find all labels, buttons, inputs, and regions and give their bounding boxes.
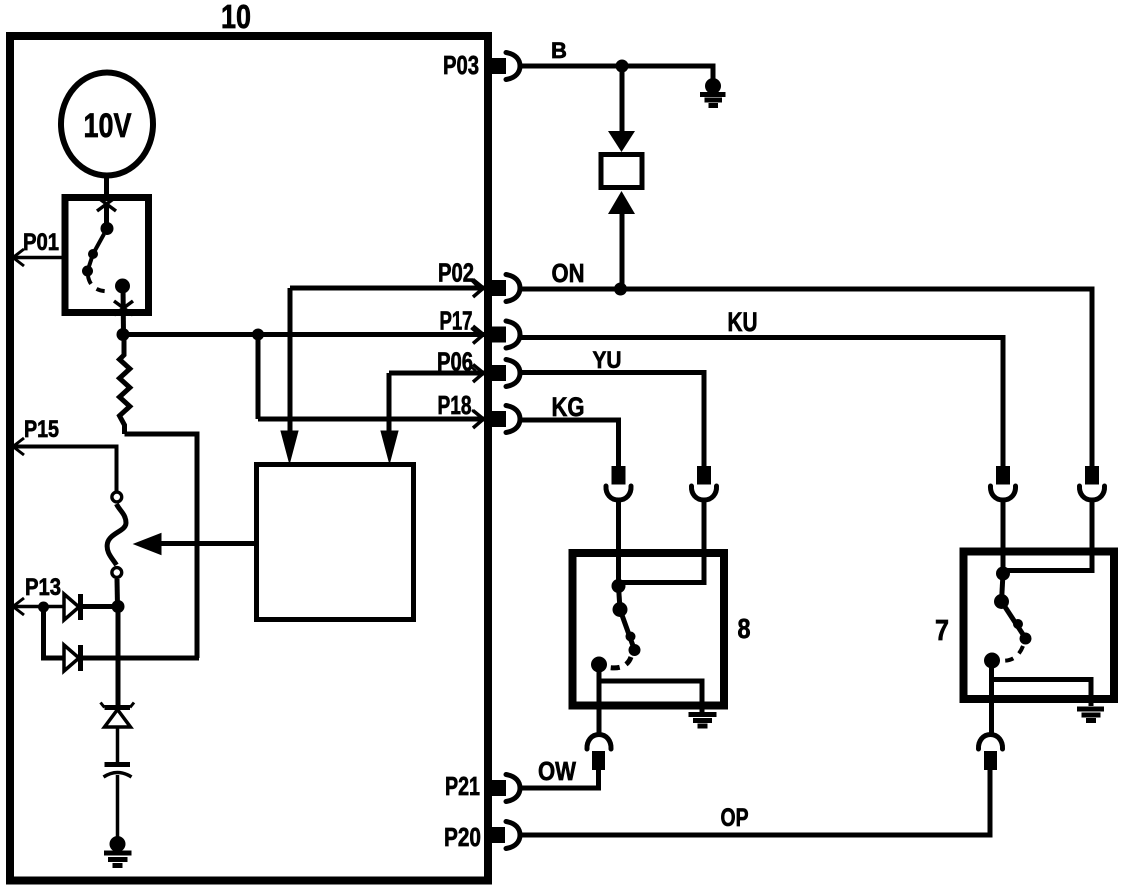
- wire B: [520, 66, 713, 79]
- pin P02 socket arc: [506, 275, 520, 302]
- wire KU: [520, 335, 1003, 466]
- svg-text:7: 7: [935, 615, 949, 647]
- ECU box 10: [10, 36, 488, 881]
- pin P06 socket arc: [506, 360, 520, 387]
- thermistor wavy element: [107, 504, 126, 565]
- switch box 8: [573, 553, 725, 706]
- svg-text:YU: YU: [593, 347, 622, 374]
- crimp X bottom: [114, 301, 133, 315]
- pin P13 lead wire: [13, 605, 64, 609]
- box 8 switch dashed arc: [606, 657, 631, 668]
- pin P03 square: [491, 58, 506, 74]
- svg-text:P13: P13: [25, 574, 61, 601]
- node P13 net: [112, 600, 125, 613]
- wire P18 net horizontal: [258, 417, 486, 422]
- wire D1 to node: [82, 604, 112, 609]
- voltage source 10V: [61, 73, 153, 176]
- pin P20 square: [490, 827, 505, 843]
- svg-text:ON: ON: [552, 258, 585, 288]
- pin P18 tick: [472, 410, 478, 415]
- box 7 switch contact dot: [984, 653, 1000, 669]
- switch box 7: [964, 552, 1115, 700]
- arrow up to fuse: [608, 191, 635, 214]
- arrow into control box left: [281, 431, 298, 463]
- pin P17 square: [491, 327, 506, 343]
- thermistor top terminal circle: [112, 492, 122, 502]
- wire circle to switch box: [104, 176, 109, 200]
- wire B down to fuse: [620, 66, 625, 140]
- pin P06 square: [491, 365, 506, 381]
- box 8 contact bracket: [599, 681, 702, 713]
- connector OP: square: [984, 751, 997, 770]
- pin P15 lead wire: [13, 447, 117, 492]
- pin P18 socket arc: [506, 406, 520, 433]
- connector OW: socket: [587, 735, 611, 750]
- svg-text:10: 10: [221, 0, 251, 35]
- resistor R1: [120, 335, 130, 435]
- box 8 switch pivot dot: [613, 602, 628, 617]
- connector OP: socket: [978, 735, 1002, 750]
- wire P06 net vertical: [387, 373, 392, 433]
- svg-text:KG: KG: [552, 392, 585, 422]
- svg-text:P02: P02: [438, 258, 474, 288]
- pin P02 square: [491, 280, 506, 296]
- pin P21 square: [491, 780, 506, 796]
- switch S1 arm: [82, 234, 104, 277]
- pin P01 lead wire: [13, 256, 65, 260]
- diode D1: [64, 594, 79, 620]
- svg-text:P18: P18: [438, 390, 472, 420]
- wire KG connector to box 8: [616, 500, 621, 586]
- wire control box to wiper arrow: [158, 541, 256, 546]
- switch S1 contact dot: [101, 222, 114, 235]
- fuse F1: [601, 155, 642, 188]
- ground symbol internal: [104, 853, 132, 866]
- wire node to P18 net: [256, 335, 261, 420]
- svg-text:P17: P17: [440, 306, 473, 336]
- box 7 switch arm: [1002, 602, 1026, 638]
- svg-text:8: 8: [738, 613, 751, 644]
- connector ON inline: square: [1085, 466, 1099, 485]
- pin P21 socket arc: [506, 775, 520, 802]
- svg-text:P20: P20: [444, 822, 481, 852]
- connector OW: square: [592, 751, 605, 770]
- wire D2 to loop corner: [82, 656, 199, 661]
- zener diode Z1: [101, 703, 135, 708]
- pin P20 socket arc: [506, 822, 520, 849]
- wire box 7 output down: [989, 661, 994, 736]
- wiper arrow head: [134, 534, 161, 555]
- box 7 wire between dots: [1002, 574, 1004, 602]
- connector YU inline: socket: [691, 486, 716, 500]
- wire P02 net vertical: [288, 288, 293, 433]
- wire ON: [520, 289, 1092, 466]
- pin P17 socket arc: [506, 321, 520, 348]
- switch S1 output dot: [115, 279, 130, 294]
- wire circle to node: [115, 579, 121, 607]
- svg-text:OP: OP: [721, 804, 749, 832]
- box 8 wire between dots: [619, 586, 621, 610]
- wire into switch: [104, 204, 109, 228]
- svg-text:P01: P01: [23, 229, 59, 256]
- wire box 8 output down: [597, 665, 602, 736]
- node junction below switch: [117, 328, 130, 341]
- capacitor C1: [105, 762, 131, 767]
- svg-text:P15: P15: [24, 416, 59, 443]
- box 7 junction dot: [996, 567, 1010, 581]
- box 8 switch arm: [620, 610, 635, 651]
- switch S1 dashed arc: [88, 276, 112, 291]
- svg-text:10V: 10V: [84, 107, 132, 145]
- ground below box 7: [1077, 709, 1104, 721]
- node fuse to ON: [614, 283, 627, 296]
- pin P06 chevron: [473, 365, 484, 383]
- pin P02 tick: [471, 280, 477, 286]
- control box U1: [257, 465, 414, 620]
- arrow into control box right: [381, 431, 398, 463]
- wire YU: [520, 373, 704, 467]
- svg-text:KU: KU: [728, 307, 758, 337]
- connector KU inline: square: [996, 466, 1010, 485]
- pin P13 arrowhead: [13, 598, 24, 615]
- box 7 switch dashed arc: [997, 646, 1023, 661]
- wire node down to zener: [116, 607, 121, 707]
- wire OW to P21: [520, 770, 599, 788]
- wire P06 net horizontal: [389, 371, 486, 376]
- connector KU inline: socket: [990, 486, 1015, 500]
- wire P13 lower branch: [44, 607, 65, 658]
- box 8 junction dot: [612, 579, 626, 593]
- node on B wire: [616, 60, 629, 73]
- connector KG inline: square: [612, 466, 626, 485]
- wire fuse to ON: [620, 212, 625, 289]
- ground dot internal: [110, 836, 126, 852]
- wire ON connector into box 7: [1003, 500, 1092, 571]
- box 7 switch pivot dot: [994, 594, 1009, 609]
- wire OP to P20: [520, 770, 990, 835]
- pin P18 square: [491, 411, 506, 427]
- pin P15 arrowhead: [13, 438, 24, 455]
- connector YU inline: square: [697, 466, 711, 485]
- wire capacitor to ground: [116, 775, 120, 840]
- ground below box 8: [689, 715, 717, 727]
- svg-text:P03: P03: [443, 50, 479, 80]
- node at P13: [38, 602, 49, 613]
- svg-text:P06: P06: [437, 347, 473, 377]
- wire resistor to loop: [125, 434, 198, 658]
- pin P02 chevron: [473, 280, 484, 298]
- box 7 contact bracket: [992, 680, 1092, 707]
- node on P17 net: [252, 329, 264, 341]
- box 8 switch contact dot: [591, 657, 607, 673]
- ground dot at B: [705, 78, 721, 94]
- pin P01 arrowhead: [13, 249, 24, 266]
- crimp X top: [97, 197, 116, 211]
- arrow into fuse: [608, 131, 635, 152]
- connector ON inline: socket: [1079, 486, 1104, 500]
- wire KG: [520, 420, 619, 466]
- svg-text:B: B: [551, 38, 567, 63]
- pin P03 socket arc: [506, 53, 520, 80]
- thermistor bottom terminal circle: [112, 568, 122, 578]
- connector KG inline: socket: [606, 486, 631, 500]
- svg-text:OW: OW: [538, 756, 576, 786]
- svg-text:P21: P21: [445, 771, 480, 801]
- wire zener to capacitor: [116, 727, 120, 763]
- pin P17 tick: [471, 328, 477, 333]
- ground symbol at B: [700, 95, 726, 106]
- diode D2: [64, 645, 79, 671]
- pin P18 chevron: [473, 411, 484, 429]
- wire KU connector to box 7: [1001, 500, 1006, 574]
- pin P06 tick: [470, 366, 476, 371]
- switch box (relay): [65, 198, 149, 313]
- wire P17 net horizontal: [123, 332, 486, 337]
- wire P02 net horizontal: [290, 286, 486, 291]
- pin P17 chevron: [473, 326, 484, 344]
- wire switch output down: [121, 286, 127, 334]
- wire YU connector into box 8: [619, 500, 705, 583]
